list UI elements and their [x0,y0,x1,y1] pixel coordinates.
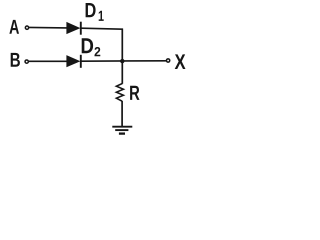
terminal A [25,26,28,29]
wire A input [29,26,67,29]
wire D1 cathode to corner [82,28,124,29]
ground [112,127,132,134]
diode D2 [66,55,80,68]
diode D1 [66,22,80,35]
node B label [11,53,20,67]
label R [130,86,139,100]
wire resistor to ground [121,101,123,127]
label D2 [82,38,93,53]
terminal B [25,60,28,63]
wire D2 cathode to X [82,60,167,62]
node A label [9,20,19,34]
wire vertical bus [121,29,123,84]
terminal X [166,59,169,62]
junction dot [120,59,124,63]
wire B input [29,60,67,62]
node X label [175,54,186,69]
resistor R zigzag [116,84,123,102]
label D1 [86,3,96,17]
